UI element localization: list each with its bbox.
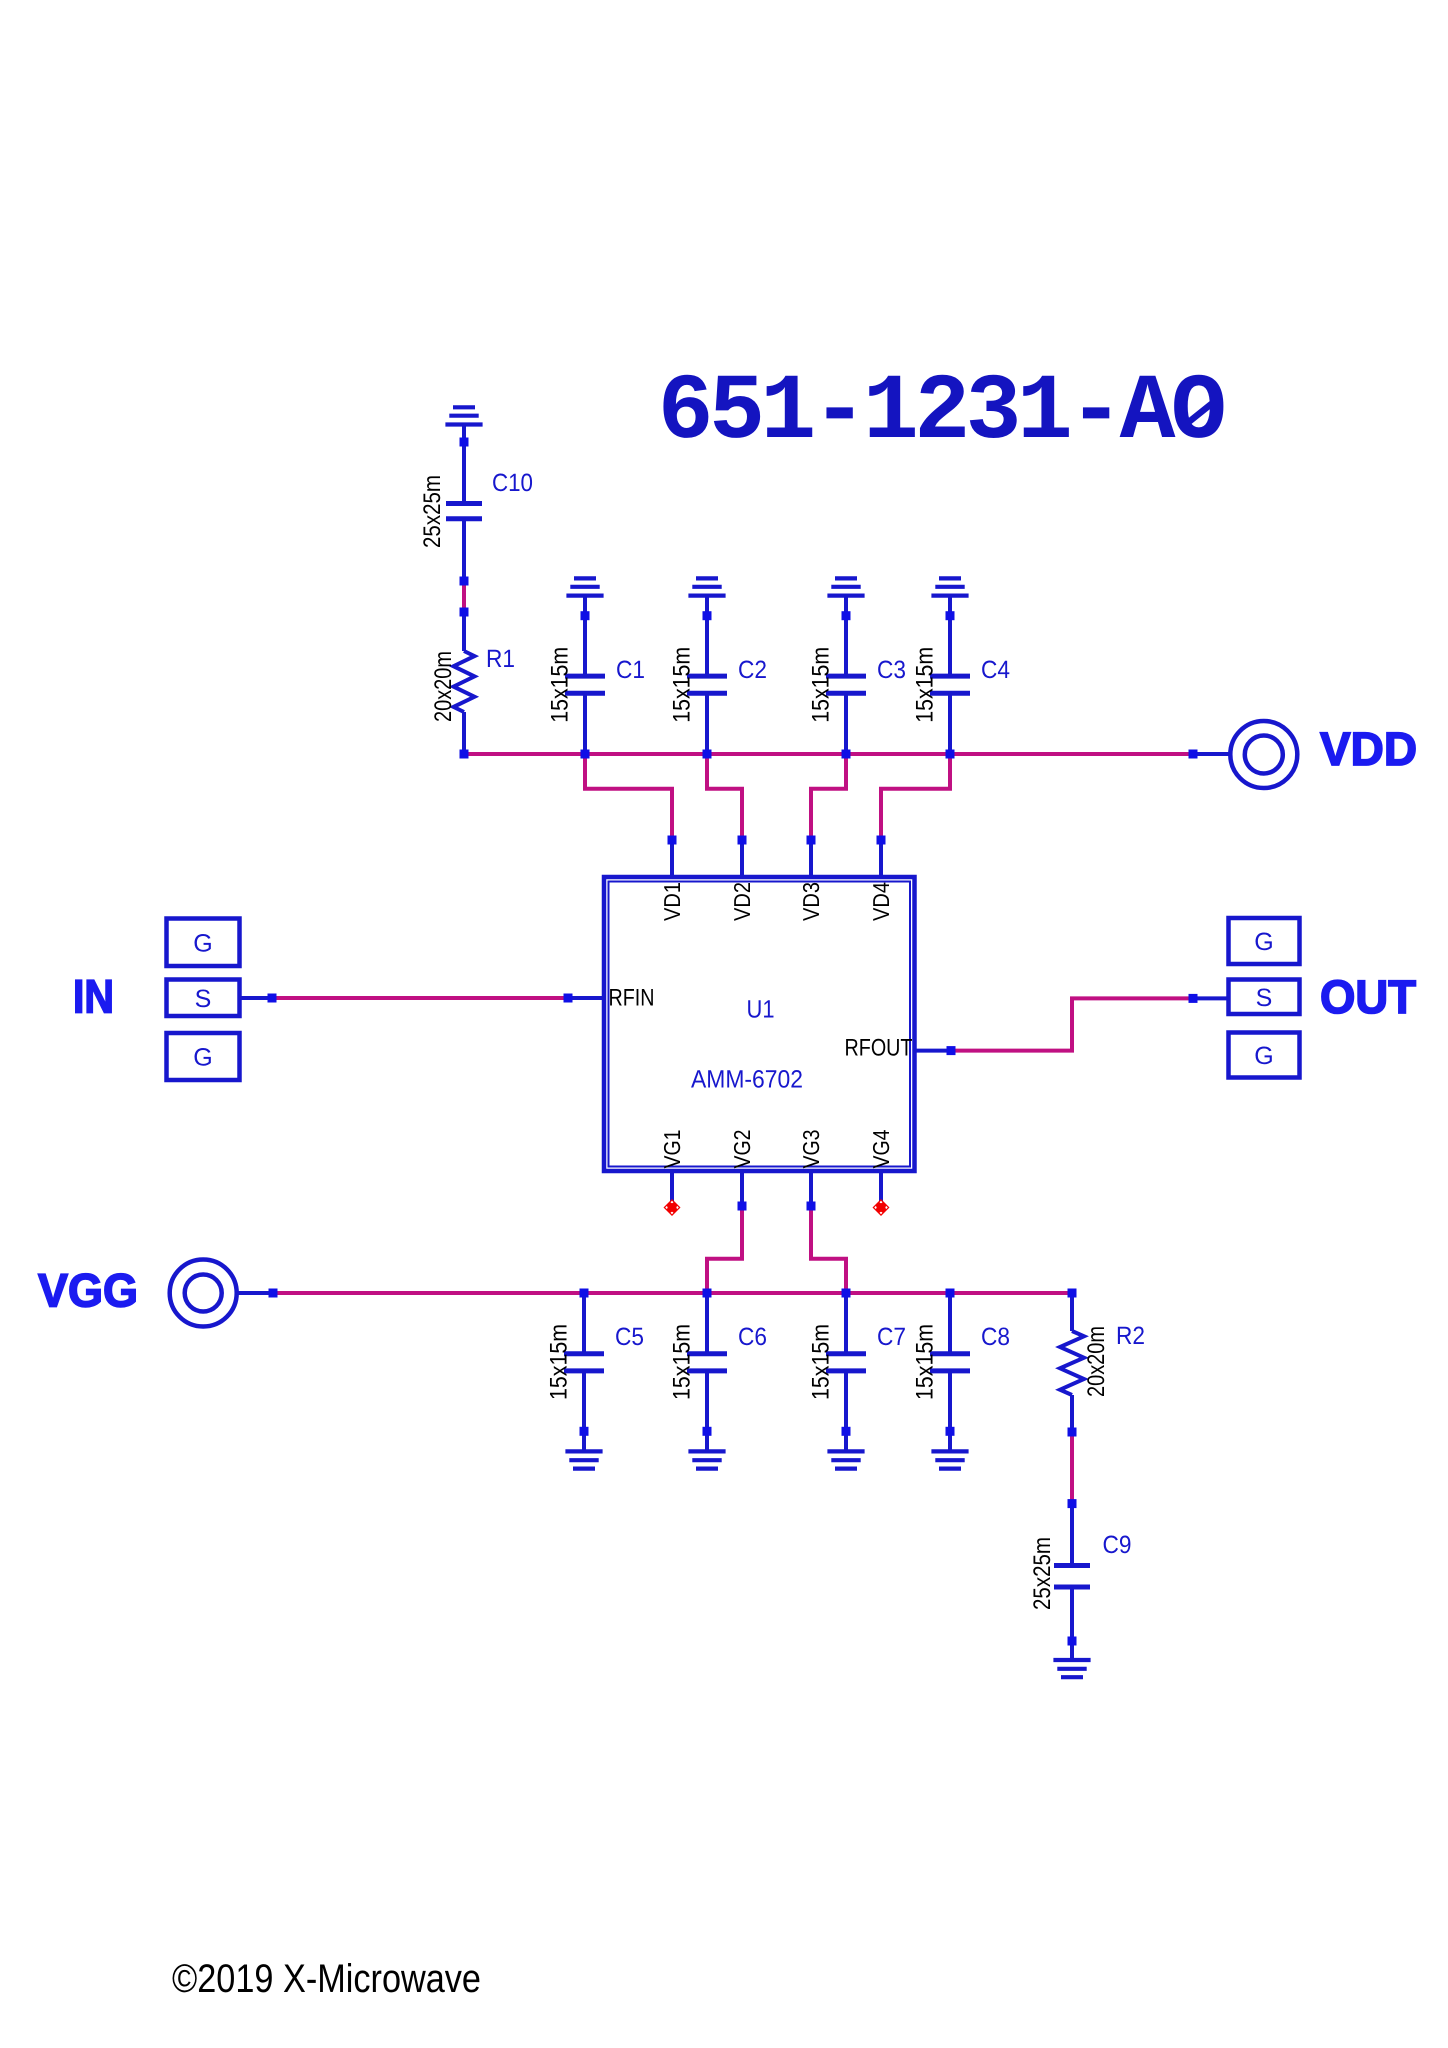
wire IN to RFIN (magenta) xyxy=(272,996,568,1000)
svg-text:G: G xyxy=(1254,928,1273,956)
pad G lower (OUT) xyxy=(1229,1033,1300,1078)
node IN wire start xyxy=(268,994,277,1003)
resistor R2 (20x20m) xyxy=(1060,1331,1084,1395)
pin VD3 stub xyxy=(809,840,813,877)
svg-text:VDD: VDD xyxy=(1320,722,1417,775)
svg-text:20x20m: 20x20m xyxy=(430,651,457,722)
wire R2 bottom lead xyxy=(1070,1395,1074,1432)
svg-text:C1: C1 xyxy=(616,656,645,684)
node C6 bottom junction xyxy=(703,1427,712,1436)
svg-text:C9: C9 xyxy=(1103,1531,1132,1559)
wire C2 lower lead xyxy=(705,693,709,754)
wire C1 lower lead xyxy=(583,693,587,754)
pin VG4 stub xyxy=(879,1171,883,1204)
svg-text:C6: C6 xyxy=(738,1323,767,1351)
node C10-R1 lower junction xyxy=(460,608,469,617)
wire VG3 to C7 (magenta) xyxy=(811,1206,846,1293)
pad G upper (OUT) xyxy=(1229,918,1300,964)
pin VD4 stub xyxy=(879,840,883,877)
capacitor C5 (15x15m) xyxy=(564,1354,604,1371)
wire C3 to VD3 (magenta) xyxy=(811,754,846,840)
pin RFOUT stub xyxy=(915,1049,952,1053)
pad G upper (IN) xyxy=(167,919,240,967)
slash of zero in title xyxy=(1185,401,1215,425)
svg-text:20x20m: 20x20m xyxy=(1083,1326,1110,1397)
wire C4 upper lead xyxy=(948,596,952,677)
port VDD connector circle xyxy=(1230,721,1297,788)
capacitor C1 (15x15m) xyxy=(565,676,605,693)
node RFOUT junction xyxy=(947,1046,956,1055)
wire VG2 to C6 (magenta) xyxy=(707,1206,742,1293)
wire C10 ground stem xyxy=(462,425,466,504)
svg-text:15x15m: 15x15m xyxy=(669,1324,696,1400)
svg-text:C3: C3 xyxy=(877,656,906,684)
wire OUT S-pad lead xyxy=(1193,996,1229,1000)
svg-text:15x15m: 15x15m xyxy=(546,1324,573,1400)
capacitor C3 (15x15m) xyxy=(826,676,866,693)
svg-text:C5: C5 xyxy=(615,1323,644,1351)
svg-text:VD2: VD2 xyxy=(729,882,755,921)
pin VD1 stub xyxy=(670,840,674,877)
ground below C5 xyxy=(565,1451,602,1468)
svg-text:VG1: VG1 xyxy=(659,1130,685,1169)
node VDD bus at R1 xyxy=(460,750,469,759)
capacitor C2 (15x15m) xyxy=(687,676,727,693)
svg-text:VD4: VD4 xyxy=(868,882,894,921)
node C3 top junction xyxy=(842,611,851,620)
svg-text:15x15m: 15x15m xyxy=(669,647,696,723)
svg-text:VGG: VGG xyxy=(38,1264,138,1317)
node C10 top junction xyxy=(460,438,469,447)
node pin VG2 xyxy=(738,1202,747,1211)
node VGG bus at C8 xyxy=(946,1289,955,1298)
svg-text:IN: IN xyxy=(73,970,114,1023)
node VGG bus at C5 xyxy=(580,1289,589,1298)
svg-text:R1: R1 xyxy=(486,645,515,673)
svg-text:C4: C4 xyxy=(981,656,1010,684)
pad S (OUT) xyxy=(1229,980,1300,1015)
ground above C4 xyxy=(931,578,968,595)
svg-text:G: G xyxy=(193,929,212,957)
svg-text:U1: U1 xyxy=(747,996,775,1024)
svg-text:C8: C8 xyxy=(981,1323,1010,1351)
wire C3 lower lead xyxy=(844,693,848,754)
wire C7 upper lead xyxy=(844,1293,848,1354)
node VGG bus right end at R2 xyxy=(1068,1289,1077,1298)
wire R1 bottom lead xyxy=(462,712,466,754)
no-connect marker at VG1 xyxy=(664,1199,681,1216)
svg-text:25x25m: 25x25m xyxy=(419,475,446,548)
wire C9 bottom lead xyxy=(1070,1587,1074,1660)
node pin VD2 xyxy=(738,836,747,845)
capacitor C4 (15x15m) xyxy=(930,676,970,693)
wire C1 upper lead xyxy=(583,596,587,677)
capacitor C9 (25x25m) xyxy=(1054,1566,1090,1588)
wire C8 upper lead xyxy=(948,1293,952,1354)
node C5 bottom junction xyxy=(580,1427,589,1436)
capacitor C10 (25x25m) xyxy=(446,504,482,519)
node VGG wire start xyxy=(269,1289,278,1298)
ground above C10 xyxy=(445,407,482,424)
pin VG1 stub xyxy=(670,1171,674,1204)
pin VG2 stub xyxy=(740,1171,744,1202)
svg-text:S: S xyxy=(1256,984,1273,1012)
wire RFOUT to OUT (magenta) xyxy=(951,998,1193,1050)
svg-text:15x15m: 15x15m xyxy=(808,1324,835,1400)
svg-text:VG4: VG4 xyxy=(868,1129,894,1168)
pin RFIN stub xyxy=(568,996,604,1000)
capacitor C8 (15x15m) xyxy=(930,1354,970,1371)
wire C4 lower lead xyxy=(948,693,952,754)
node R2-C9 lower junction xyxy=(1068,1499,1077,1508)
svg-text:C2: C2 xyxy=(738,656,767,684)
node OUT wire end xyxy=(1189,994,1198,1003)
svg-text:25x25m: 25x25m xyxy=(1029,1537,1056,1610)
wire C8 lower lead xyxy=(948,1371,952,1452)
pin VG3 stub xyxy=(809,1171,813,1202)
ground above C3 xyxy=(827,578,864,595)
wire C6 upper lead xyxy=(705,1293,709,1354)
wire C9 top lead xyxy=(1070,1504,1074,1566)
node pin VD1 xyxy=(668,836,677,845)
node C8 bottom junction xyxy=(946,1427,955,1436)
node C9 bottom junction xyxy=(1068,1637,1077,1646)
wire R2 top lead xyxy=(1070,1293,1074,1331)
wire to VDD port xyxy=(1193,752,1229,756)
svg-text:G: G xyxy=(1254,1042,1273,1070)
node VDD bus right end xyxy=(1189,750,1198,759)
svg-text:©2019 X-Microwave: ©2019 X-Microwave xyxy=(172,1957,481,2001)
svg-text:RFIN: RFIN xyxy=(609,985,655,1012)
svg-text:G: G xyxy=(193,1044,212,1072)
wire net R2 to C9 (magenta) xyxy=(1070,1432,1074,1504)
wire C3 upper lead xyxy=(844,596,848,677)
wire VGG bus (magenta) xyxy=(273,1291,1072,1295)
node VGG bus at C7 xyxy=(842,1289,851,1298)
svg-text:651-1231-AO: 651-1231-AO xyxy=(658,360,1224,465)
ground below C7 xyxy=(827,1451,864,1468)
svg-text:15x15m: 15x15m xyxy=(808,647,835,723)
svg-text:C7: C7 xyxy=(877,1323,906,1351)
node VDD bus at C4 xyxy=(946,750,955,759)
svg-text:AMM-6702: AMM-6702 xyxy=(691,1066,803,1094)
wire C6 lower lead xyxy=(705,1371,709,1452)
node VDD bus at C1 xyxy=(581,750,590,759)
wire net C10 to R1 (magenta) xyxy=(462,581,466,612)
node pin VD4 xyxy=(877,836,886,845)
node pin VG3 xyxy=(807,1202,816,1211)
wire C5 upper lead xyxy=(582,1293,586,1354)
wire C4 to VD4 (magenta) xyxy=(881,754,950,840)
wire R1 top lead xyxy=(462,612,466,651)
no-connect marker at VG4 xyxy=(873,1199,890,1216)
capacitor C7 (15x15m) xyxy=(826,1354,866,1371)
ground below C6 xyxy=(688,1451,725,1468)
wire VDD bus (magenta) xyxy=(464,752,1193,756)
pad S (IN) xyxy=(167,980,240,1017)
node C7 bottom junction xyxy=(842,1427,851,1436)
ground above C1 xyxy=(566,578,603,595)
svg-text:15x15m: 15x15m xyxy=(547,647,574,723)
wire C10 bottom lead xyxy=(462,519,466,581)
pin VD2 stub xyxy=(740,840,744,877)
ground above C2 xyxy=(688,578,725,595)
node R2-C9 upper junction xyxy=(1068,1428,1077,1437)
wire C5 lower lead xyxy=(582,1371,586,1452)
node VDD bus at C3 xyxy=(842,750,851,759)
wire C7 lower lead xyxy=(844,1371,848,1452)
svg-text:RFOUT: RFOUT xyxy=(845,1035,913,1062)
node C4 top junction xyxy=(946,611,955,620)
node VDD bus at C2 xyxy=(703,750,712,759)
ground below C9 xyxy=(1053,1660,1090,1677)
wire C2 to VD2 (magenta) xyxy=(707,754,742,840)
svg-text:OUT: OUT xyxy=(1320,970,1416,1023)
node C1 top junction xyxy=(581,611,590,620)
wire C2 upper lead xyxy=(705,596,709,677)
node VGG bus at C6 xyxy=(703,1289,712,1298)
svg-text:C10: C10 xyxy=(492,469,533,497)
node pin VD3 xyxy=(807,836,816,845)
port VGG connector circle xyxy=(170,1260,237,1327)
svg-text:S: S xyxy=(195,985,212,1013)
pad G lower (IN) xyxy=(167,1033,240,1080)
svg-text:15x15m: 15x15m xyxy=(912,1324,939,1400)
svg-text:15x15m: 15x15m xyxy=(912,647,939,723)
svg-text:VG2: VG2 xyxy=(729,1130,755,1169)
capacitor C6 (15x15m) xyxy=(687,1354,727,1371)
svg-text:VD1: VD1 xyxy=(659,882,685,921)
op-amp / MMIC U1 AMM-6702 body xyxy=(604,877,915,1171)
node RFIN junction xyxy=(564,994,573,1003)
wire VGG port lead xyxy=(237,1291,273,1295)
ground below C8 xyxy=(931,1451,968,1468)
resistor R1 (20x20m) xyxy=(454,651,475,712)
wire IN S-pad lead xyxy=(240,996,273,1000)
svg-text:VG3: VG3 xyxy=(798,1130,824,1169)
svg-text:VD3: VD3 xyxy=(798,882,824,921)
node C2 top junction xyxy=(703,611,712,620)
wire C1 to VD1 (magenta) xyxy=(585,754,672,840)
node C10-R1 upper junction xyxy=(460,577,469,586)
svg-text:R2: R2 xyxy=(1116,1322,1145,1350)
